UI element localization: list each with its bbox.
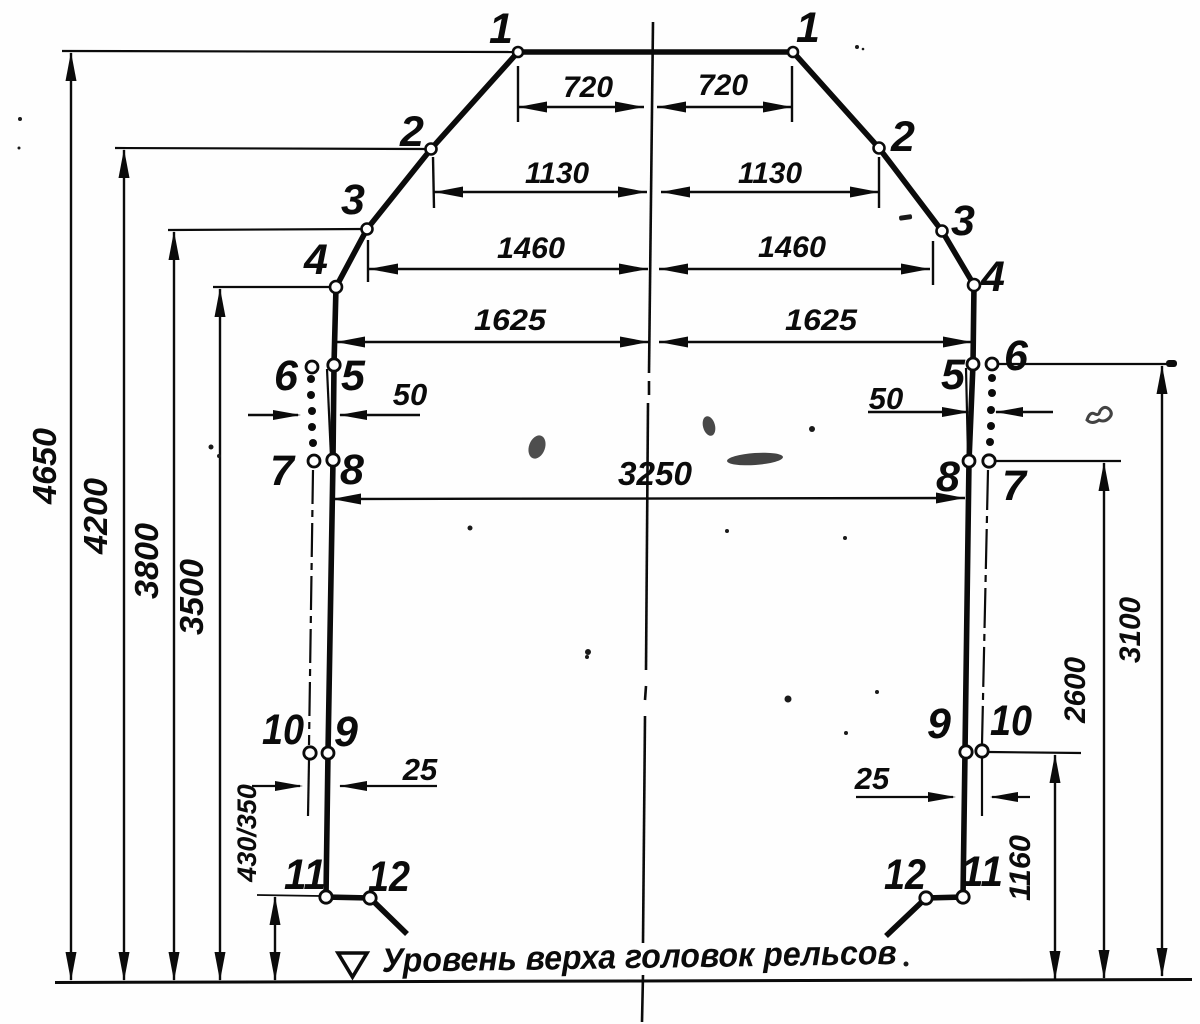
scan smudge squiggle right [1087, 407, 1111, 422]
dash-dot line 7-10 left [309, 470, 313, 745]
svg-text:3: 3 [341, 176, 365, 224]
svg-text:11: 11 [961, 848, 1003, 896]
connector line from point 10 right [989, 752, 1081, 753]
svg-text:1460: 1460 [497, 232, 565, 265]
point 1 left [513, 47, 523, 57]
label 2 left [399, 108, 424, 156]
svg-text:720: 720 [698, 69, 748, 102]
svg-text:25: 25 [402, 752, 438, 787]
dotted line 6-7 left [307, 375, 317, 447]
label 5 left [341, 352, 366, 400]
rail level ground line [55, 980, 1192, 983]
svg-text:1130: 1130 [738, 157, 802, 190]
point 5 left [328, 359, 340, 371]
svg-text:11: 11 [284, 851, 326, 899]
svg-text:1625: 1625 [785, 304, 858, 337]
label 8 right [936, 453, 960, 501]
svg-text:3800: 3800 [128, 522, 165, 599]
dimension 430/350 vertical [232, 784, 281, 981]
point 10 right [976, 745, 988, 757]
point 2 left [426, 144, 437, 155]
extension line under point 2 left [433, 157, 434, 208]
svg-text:2: 2 [399, 108, 424, 156]
label 6 left [274, 352, 299, 400]
dimension 1625 right [659, 304, 972, 348]
label 10 left [262, 706, 304, 754]
extension line under point 1 right [791, 66, 793, 122]
point 12 right [920, 892, 932, 904]
dash-dot line 7-10 right [982, 470, 988, 744]
gauge outline top edge [516, 49, 795, 55]
svg-text:12: 12 [884, 851, 926, 899]
svg-text:4: 4 [980, 253, 1005, 301]
label 10 right [990, 697, 1032, 745]
svg-text:1: 1 [489, 5, 513, 53]
label 12 left [368, 853, 410, 901]
label 7 left [270, 447, 296, 495]
svg-text:720: 720 [563, 71, 613, 104]
dimension 720 left [518, 71, 644, 113]
point 11 left [320, 891, 332, 903]
point 9 right [960, 746, 972, 758]
svg-text:3100: 3100 [1114, 597, 1147, 663]
svg-text:7: 7 [270, 447, 296, 495]
point 7 right [983, 455, 995, 467]
point 8 left [327, 454, 339, 466]
connector line from point 7 right [996, 460, 1121, 462]
connector line 3500 top [213, 286, 334, 288]
rail level caption [382, 934, 898, 980]
svg-text:4200: 4200 [77, 477, 114, 555]
point 6 right [986, 358, 998, 370]
svg-text:25: 25 [854, 761, 890, 796]
point 7 left [308, 455, 320, 467]
extension below point 10 left [308, 760, 309, 816]
point 4 left [330, 281, 342, 293]
dimension 1625 left [336, 304, 649, 348]
dimension 3250 [332, 455, 965, 505]
svg-text:6: 6 [1004, 332, 1029, 380]
dimension 1160 vertical [1004, 754, 1061, 980]
inner thin line 5-8 right [966, 368, 968, 456]
dimension 4200 vertical [77, 149, 130, 981]
label 7 right [1002, 462, 1028, 510]
dimension 25 left [252, 752, 438, 791]
svg-text:50: 50 [393, 377, 427, 412]
svg-text:6: 6 [274, 352, 299, 400]
dimension 4650 vertical [26, 52, 77, 981]
label 9 right [927, 700, 951, 748]
dimension 720 right [657, 69, 792, 113]
dimension 3100 vertical [1114, 365, 1168, 977]
svg-text:4: 4 [303, 236, 328, 284]
dimension 1460 right [659, 231, 930, 275]
svg-text:8: 8 [340, 446, 364, 494]
svg-text:1460: 1460 [758, 231, 826, 264]
scan speckles [18, 45, 913, 967]
svg-text:7: 7 [1002, 462, 1028, 510]
point 6 left [306, 361, 318, 373]
svg-text:2: 2 [890, 113, 915, 161]
label 8 left [340, 446, 364, 494]
svg-text:Уровень верха головок рельсов: Уровень верха головок рельсов [382, 934, 898, 980]
svg-text:1160: 1160 [1004, 835, 1037, 901]
svg-text:5: 5 [341, 352, 366, 400]
svg-text:10: 10 [990, 697, 1032, 745]
point 3 left [362, 224, 373, 235]
centre line [642, 22, 653, 1022]
svg-text:1130: 1130 [525, 157, 589, 190]
label 5 right [941, 351, 966, 399]
svg-text:9: 9 [927, 700, 951, 748]
inner thin line 5-8 left [327, 369, 331, 457]
svg-text:3250: 3250 [618, 455, 693, 492]
point 9 left [322, 747, 334, 759]
label 1 left [489, 5, 513, 53]
extension line under point 1 left [517, 66, 519, 122]
point 5 right [967, 358, 979, 370]
svg-text:1625: 1625 [474, 304, 547, 337]
label 1 right [796, 4, 820, 52]
dimension 50 right [868, 381, 1053, 417]
connector line 4650 top [62, 51, 516, 52]
svg-text:3: 3 [951, 197, 975, 245]
dimension 1460 left [369, 232, 648, 275]
connector line 3800 top [168, 229, 365, 230]
svg-text:12: 12 [368, 853, 410, 901]
label 3 left [341, 176, 365, 224]
gauge outline left side [326, 52, 518, 934]
label 9 left [334, 708, 358, 756]
rail level triangle symbol [338, 953, 367, 977]
label 4 right [980, 253, 1005, 301]
extension line under point 3 left [367, 240, 369, 282]
svg-text:2600: 2600 [1059, 657, 1092, 724]
label 6 right [1004, 332, 1029, 380]
dimension 50 left [248, 377, 427, 420]
svg-text:3500: 3500 [173, 558, 210, 635]
point 11 right [957, 891, 969, 903]
scan smudges near 3250 line [468, 415, 848, 540]
point 4 right [968, 279, 980, 291]
gauge outline right side [793, 52, 974, 936]
extension line under point 3 right [932, 241, 934, 285]
dimension 1130 right [661, 157, 879, 198]
svg-text:5: 5 [941, 351, 966, 399]
point 2 right [874, 143, 885, 154]
svg-text:1: 1 [796, 4, 820, 52]
point 3 right [937, 226, 948, 237]
dimension 25 right [854, 761, 1030, 802]
svg-text:10: 10 [262, 706, 304, 754]
point 10 left [304, 747, 316, 759]
point 1 right [788, 47, 798, 57]
dimension 3500 vertical [173, 288, 226, 981]
dimension 3800 vertical [128, 231, 180, 981]
dotted line 6-7 right [986, 374, 996, 446]
svg-text:430/350: 430/350 [232, 784, 262, 883]
label 11 left [284, 851, 326, 899]
label 11 right [961, 848, 1003, 896]
extension line under point 2 right [878, 157, 880, 208]
dimension 2600 vertical [1059, 462, 1110, 979]
dimension 1130 left [434, 157, 647, 198]
connector line 430/350 top [257, 895, 321, 896]
label 2 right [890, 113, 915, 161]
label 3 right [951, 197, 975, 245]
svg-text:4650: 4650 [26, 427, 63, 505]
point 8 right [963, 455, 975, 467]
point 12 left [364, 892, 376, 904]
connector line 4200 top [115, 148, 429, 149]
svg-text:8: 8 [936, 453, 960, 501]
connector line from point 6 right [999, 360, 1177, 367]
label 4 left [303, 236, 328, 284]
extension below point 10 right [981, 758, 983, 816]
label 12 right [884, 851, 926, 899]
svg-text:9: 9 [334, 708, 358, 756]
svg-text:50: 50 [869, 381, 903, 416]
